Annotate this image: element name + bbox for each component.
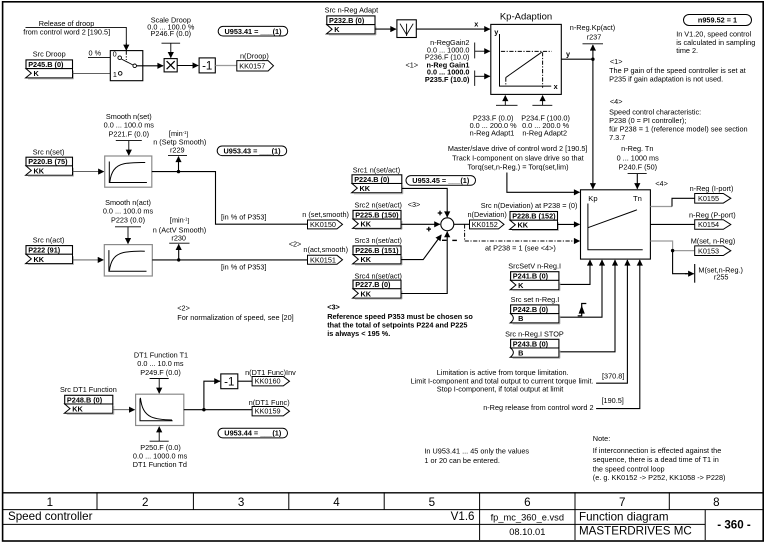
svg-text:- 360 -: - 360 -: [717, 519, 751, 532]
multiplier block: [164, 59, 177, 72]
node: n-Reg. Tn labels: [617, 144, 660, 171]
svg-text:P227.B (0): P227.B (0): [355, 280, 391, 289]
svg-text:[190.5]: [190.5]: [602, 396, 624, 405]
node: scale droop labels: [147, 15, 195, 38]
svg-text:P228.B (152): P228.B (152): [512, 212, 556, 221]
output connector KK0151: [308, 255, 343, 264]
input connector P232 Src n-Reg Adapt: [325, 5, 379, 35]
wire: P249 into DT1 block top: [150, 379, 169, 394]
svg-text:4: 4: [333, 496, 340, 509]
input connector P242 Src set n-Reg.I: [510, 295, 560, 324]
svg-text:P232.B (0): P232.B (0): [329, 16, 365, 25]
svg-text:K0153: K0153: [698, 246, 719, 255]
svg-text:KK: KK: [361, 289, 372, 298]
svg-text:P221.F (0.0): P221.F (0.0): [109, 130, 150, 139]
svg-text:0.0 ... 100.0 ms: 0.0 ... 100.0 ms: [104, 121, 155, 130]
svg-text:Master/slave drive of control: Master/slave drive of control word 2 [19…: [448, 144, 588, 153]
svg-text:<3>: <3>: [327, 303, 340, 312]
wire: master/slave track to controller: [507, 173, 579, 193]
node: r229 measuring point labels: [153, 129, 206, 155]
wire: P250 into DT1 block bottom: [150, 427, 169, 441]
input connector P224 Src1 n(set/act): [352, 166, 403, 194]
svg-text:r230: r230: [171, 234, 186, 243]
node: junction r230: [177, 258, 180, 261]
svg-text:P240.F (50): P240.F (50): [619, 162, 658, 171]
node: dead time note: [593, 434, 726, 482]
edge trigger symbol: [578, 304, 587, 316]
svg-text:P246.F (0.0): P246.F (0.0): [151, 29, 192, 38]
wire: P245 to switch input 1: [73, 72, 118, 74]
wire: Src1 to summer top: [402, 188, 447, 216]
input connector P243 Src n-Reg.I STOP: [505, 329, 564, 358]
svg-text:Src DT1 Function: Src DT1 Function: [60, 385, 117, 394]
svg-text:K0154: K0154: [698, 220, 719, 229]
oval U953.43: [217, 146, 287, 156]
wire: arrow up to r229: [178, 157, 180, 172]
svg-text:Src1 n(set/act): Src1 n(set/act): [353, 166, 400, 175]
svg-text:1 or 20 can be entered.: 1 or 20 can be entered.: [424, 456, 499, 465]
wire: P240 Tn into controller top: [628, 174, 647, 189]
node: sampling time note: [676, 30, 755, 56]
svg-text:time 2.: time 2.: [676, 46, 698, 55]
svg-text:P225.B (150): P225.B (150): [355, 210, 399, 219]
svg-text:0: 0: [113, 50, 117, 59]
svg-text:B: B: [518, 314, 523, 323]
svg-text:Src n(set): Src n(set): [33, 147, 65, 156]
node: junction r229: [177, 170, 180, 173]
svg-text:For normalization of speed, se: For normalization of speed, see [20]: [177, 313, 293, 322]
svg-text:Src3 n(set/act): Src3 n(set/act): [355, 236, 402, 245]
input connector P245 Src Droop: [26, 49, 74, 79]
svg-text:fp_mc_360_e.vsd: fp_mc_360_e.vsd: [491, 513, 564, 523]
svg-text:x: x: [474, 20, 478, 29]
svg-text:-1: -1: [202, 61, 212, 73]
svg-text:Src n-Reg Adapt: Src n-Reg Adapt: [325, 5, 379, 14]
svg-text:is always < 195 %.: is always < 195 %.: [327, 329, 390, 338]
svg-text:In U953.41 ... 45 only the val: In U953.41 ... 45 only the values: [424, 446, 529, 455]
wire: 0% to switch input 0: [88, 57, 110, 59]
svg-text:<2>: <2>: [177, 304, 190, 313]
svg-text:n959.52 = 1: n959.52 = 1: [698, 16, 737, 25]
svg-text:KK0151: KK0151: [310, 255, 336, 264]
svg-text:P220.B (75): P220.B (75): [28, 157, 68, 166]
svg-text:Kp: Kp: [588, 194, 597, 203]
svg-text:n(Droop): n(Droop): [240, 51, 269, 60]
svg-text:If interconnection is effected: If interconnection is effected against t…: [593, 446, 721, 455]
wire: P233 adapt1 into block bottom: [496, 96, 518, 106]
node: U953 entry note: [424, 446, 529, 465]
oval U953.44: [218, 428, 288, 438]
wire: bottom input 2 (P242): [559, 260, 602, 317]
output connector K0153: [695, 246, 731, 256]
svg-text:r229: r229: [170, 145, 185, 154]
svg-text:P245.B (0): P245.B (0): [28, 60, 64, 69]
svg-text:Note:: Note:: [593, 434, 610, 443]
wire: bottom input 4 (torque limitation [370.8]): [596, 260, 627, 383]
DT1 block (derivative decay): [136, 394, 184, 425]
wire: summer output to KK0152: [454, 223, 470, 225]
wire: bottom input 3 (P243): [559, 260, 615, 352]
svg-text:V1.6: V1.6: [451, 510, 475, 523]
svg-text:MASTERDRIVES MC: MASTERDRIVES MC: [579, 525, 692, 538]
node: footnote 4: [609, 97, 748, 142]
svg-text:0.0 ... 10.0 ms: 0.0 ... 10.0 ms: [137, 359, 184, 368]
wire: bottom input 1 (P241): [559, 260, 590, 284]
svg-text:P243.B (0): P243.B (0): [513, 339, 549, 348]
svg-text:Src Droop: Src Droop: [33, 49, 66, 58]
svg-text:Src n-Reg.I STOP: Src n-Reg.I STOP: [505, 329, 564, 338]
input connector P226 Src3 n(set/act): [353, 236, 402, 265]
node: r255 labels: [698, 265, 743, 281]
svg-text:KK0150: KK0150: [310, 220, 336, 229]
smoothing block 1 (PT1 rise): [105, 156, 152, 187]
node: minus sign lower-left: [442, 239, 447, 241]
node: minus sign bottom-right: [452, 239, 457, 241]
node: DT1 Td parameter labels: [133, 443, 188, 469]
svg-text:KK0157: KK0157: [239, 61, 265, 70]
svg-text:n(Deviation): n(Deviation): [468, 210, 507, 219]
svg-text:1: 1: [47, 496, 53, 509]
node: plus sign left: [427, 227, 432, 232]
wire: P220 to smoothing block 1: [73, 171, 104, 173]
svg-text:[370.8]: [370.8]: [602, 372, 624, 381]
title block table: [2, 492, 763, 540]
svg-text:Stop I-component, if total out: Stop I-component, if total output at lim…: [437, 385, 564, 394]
svg-text:KK: KK: [361, 255, 372, 264]
wire: P228 to controller left input: [558, 223, 580, 225]
wire: multiplier to -1: [177, 65, 198, 67]
svg-text:[in % of P353]: [in % of P353]: [221, 212, 266, 221]
node: P233 / P234 labels: [470, 113, 570, 137]
svg-text:3: 3: [238, 496, 244, 509]
svg-text:1: 1: [113, 70, 117, 79]
output connector KK0159: [252, 407, 289, 416]
svg-text:0.0 ... 100.0 ms: 0.0 ... 100.0 ms: [103, 206, 154, 215]
input connector P228 n(Deviation): [510, 212, 559, 231]
wire: to r255 measuring point: [673, 251, 695, 283]
input connector P225 Src2 n(set/act): [353, 201, 402, 230]
svg-text:P226.B (151): P226.B (151): [355, 246, 399, 255]
oval U953.45: [406, 176, 476, 186]
node: DT1 T1 parameter labels: [134, 350, 188, 377]
wire: Src4 to summer bottom: [401, 232, 447, 294]
svg-text:r237: r237: [587, 32, 602, 41]
wire: P221 into smoothing block 1: [116, 141, 142, 156]
svg-text:n-Reg.Kp(act): n-Reg.Kp(act): [570, 23, 615, 32]
svg-text:KK0152: KK0152: [472, 220, 498, 229]
block: -1 inverter: [199, 58, 215, 73]
wire: smoothing1 output to KK0150: [152, 172, 308, 225]
wire: I-port output (gray then black): [650, 198, 694, 206]
svg-text:KK: KK: [360, 184, 371, 193]
svg-text:KK: KK: [34, 255, 45, 264]
wire: -1 to KK0157 (gray): [215, 65, 237, 67]
svg-text:r255: r255: [714, 273, 729, 282]
output connector KK0150: [308, 220, 343, 229]
node: release of droop label: [23, 19, 110, 36]
svg-text:<1>: <1>: [610, 57, 623, 66]
node: junction DT1 out: [202, 408, 205, 411]
svg-text:n(DT1 Func)Inv: n(DT1 Func)Inv: [245, 368, 296, 377]
input connector P227 Src4 n(set/act): [353, 271, 402, 299]
output connector KK0160: [252, 377, 289, 386]
svg-text:<4>: <4>: [610, 97, 623, 106]
svg-text:08.10.01: 08.10.01: [509, 527, 545, 537]
svg-text:Src2 n(set/act): Src2 n(set/act): [355, 201, 402, 210]
svg-text:KK0159: KK0159: [255, 407, 281, 416]
output connector KK0152: [470, 220, 505, 229]
svg-text:SrcSetV n-Reg.I: SrcSetV n-Reg.I: [508, 262, 561, 271]
wire: dash-dot bypass at P238=1: [465, 224, 580, 241]
svg-text:U953.45 = ___(1): U953.45 = ___(1): [412, 176, 470, 185]
svg-text:P222 (91): P222 (91): [28, 246, 61, 255]
svg-text:n(DT1 Func): n(DT1 Func): [249, 398, 290, 407]
oval U953.41: [218, 26, 288, 36]
svg-text:n (set,smooth): n (set,smooth): [302, 210, 349, 219]
svg-text:Track I-component on slave dri: Track I-component on slave drive so that: [452, 153, 584, 162]
block: speed controller PI (Kp Tn): [581, 190, 651, 259]
wire: P234 adapt2 into block bottom: [532, 96, 552, 106]
svg-text:n-Reg. Tn: n-Reg. Tn: [621, 144, 653, 153]
wire: bottom input 5 (n-Reg release [190.5]): [596, 260, 640, 408]
svg-text:KK0160: KK0160: [255, 377, 281, 386]
svg-text:n-Reg (P-port): n-Reg (P-port): [689, 210, 736, 219]
svg-text:KK: KK: [361, 220, 372, 229]
svg-text:U953.41 = ___(1): U953.41 = ___(1): [225, 27, 283, 36]
input connector P248 Src DT1 Function: [60, 385, 117, 414]
node: junction M(set): [671, 249, 674, 252]
svg-text:K: K: [518, 281, 524, 290]
output connector KK0157: [237, 61, 274, 71]
svg-text:P235 if gain adaptation is not: P235 if gain adaptation is not used.: [609, 74, 723, 83]
node: smooth n(set) parameter labels: [104, 112, 155, 139]
svg-text:Src n(act): Src n(act): [33, 235, 65, 244]
wire: switch to multiplier: [137, 65, 164, 67]
wire: P232 to absolute value block: [375, 28, 396, 30]
svg-text:7: 7: [619, 496, 625, 509]
svg-text:KK: KK: [72, 405, 83, 414]
svg-text:2: 2: [142, 496, 148, 509]
svg-text:-1: -1: [224, 376, 234, 388]
svg-text:P248.B (0): P248.B (0): [67, 395, 103, 404]
svg-text:(e. g. KK0152 -> P252, KK1058: (e. g. KK0152 -> P252, KK1058 -> P228): [593, 473, 726, 482]
svg-text:Speed controller: Speed controller: [8, 510, 93, 523]
wire: arrow up to r230: [178, 244, 180, 260]
wire: -1 to KK0160: [238, 380, 252, 382]
svg-text:[min-1]: [min-1]: [170, 215, 190, 224]
svg-text:P241.B (0): P241.B (0): [513, 272, 549, 281]
node: r237 measuring point: [570, 23, 615, 44]
svg-text:sequence, there is a dead time: sequence, there is a dead time of T1 in: [593, 455, 719, 464]
svg-text:K0155: K0155: [698, 194, 719, 203]
svg-text:8: 8: [713, 496, 719, 509]
svg-text:6: 6: [524, 496, 530, 509]
svg-text:<3>: <3>: [408, 200, 421, 209]
smoothing block 2 (PT1 rise): [104, 245, 152, 276]
svg-text:Torq(set,n-Reg.) = Torq(set,li: Torq(set,n-Reg.) = Torq(set,lim): [467, 162, 568, 171]
svg-text:from control word 2 [190.5]: from control word 2 [190.5]: [23, 27, 110, 36]
svg-text:P242.B (0): P242.B (0): [513, 305, 549, 314]
wire: adaption y output to controller Kp input: [561, 59, 593, 188]
svg-text:0 %: 0 %: [89, 49, 102, 58]
svg-text:M(set, n-Reg): M(set, n-Reg): [691, 236, 736, 245]
svg-text:n-Reg release from control wor: n-Reg release from control word 2: [483, 403, 593, 412]
switch block (droop release): [110, 50, 143, 81]
input connector P220 Src n(set): [26, 147, 74, 176]
svg-text:n(act,smooth): n(act,smooth): [303, 245, 348, 254]
svg-text:<2>: <2>: [289, 240, 302, 249]
svg-text:Src set n-Reg.I: Src set n-Reg.I: [511, 295, 560, 304]
wire: release of droop to switch control input: [26, 27, 127, 50]
wire: smoothing2 output to KK0151: [152, 259, 307, 261]
svg-text:KK: KK: [34, 166, 45, 175]
svg-text:Src4 n(set/act): Src4 n(set/act): [355, 271, 402, 280]
output connector K0155: [695, 194, 731, 204]
svg-text:0 ... 1000 ms: 0 ... 1000 ms: [617, 153, 660, 162]
svg-text:K: K: [34, 69, 40, 78]
svg-text:n-Reg (I-port): n-Reg (I-port): [690, 184, 734, 193]
input connector P241 SrcSetV n-Reg.I: [508, 262, 561, 291]
svg-text:7.3.7: 7.3.7: [609, 133, 625, 142]
svg-text:P224.B (0): P224.B (0): [354, 175, 390, 184]
wire: P223 into smoothing block 2: [115, 227, 141, 244]
wire: junction up to -1: [204, 381, 220, 410]
wire: Src3 to summer lower-left (diagonal): [401, 235, 441, 260]
svg-text:n-Reg Adapt1: n-Reg Adapt1: [470, 128, 515, 137]
svg-text:Kp-Adaption: Kp-Adaption: [500, 12, 552, 23]
node: junction at r237: [591, 58, 594, 61]
svg-text:5: 5: [429, 496, 435, 509]
svg-text:U953.44 = ___(1): U953.44 = ___(1): [224, 429, 282, 438]
node: footnote 1: [609, 57, 746, 83]
output connector K0154: [695, 220, 731, 230]
wire: P-port output: [650, 223, 694, 225]
svg-text:at P238 = 1 (see <4>): at P238 = 1 (see <4>): [485, 244, 556, 253]
svg-text:P249.F (0.0): P249.F (0.0): [140, 368, 181, 377]
svg-text:[in % of P353]: [in % of P353]: [221, 263, 266, 272]
input connector P222 Src n(act): [26, 235, 74, 264]
svg-text:P223 (0.0): P223 (0.0): [111, 215, 145, 224]
node: plus sign top: [438, 211, 443, 216]
svg-text:n-Reg Adapt2: n-Reg Adapt2: [522, 128, 567, 137]
node: reference speed footnote (bold): [327, 312, 473, 338]
wire: Src2 to summer left: [401, 223, 440, 225]
svg-text:Src n(Deviation) at P238 = (0): Src n(Deviation) at P238 = (0): [481, 201, 578, 210]
wire: DT1 output to KK0159: [184, 409, 252, 411]
wire: gain2 into adaption block: [475, 43, 490, 59]
svg-text:U953.43 = ___(1): U953.43 = ___(1): [224, 146, 282, 155]
node: master/slave note: [448, 144, 588, 171]
svg-text:für P238 = 1 (reference model): für P238 = 1 (reference model) see secti…: [609, 125, 748, 134]
svg-text:Function diagram: Function diagram: [579, 510, 669, 523]
node: torque limitation notes: [411, 368, 594, 394]
oval n959.52: [684, 15, 752, 26]
wire: arrow up to r237: [592, 45, 594, 59]
svg-text:KK: KK: [518, 221, 529, 230]
wire: P222 to smoothing block 2: [73, 259, 104, 261]
summing junction circle: [441, 218, 454, 231]
svg-text:<4>: <4>: [655, 179, 668, 188]
wire: abs to Kp-Adaption x input: [416, 28, 490, 30]
svg-text:P235.F (10.0): P235.F (10.0): [425, 75, 470, 84]
svg-text:Tn: Tn: [633, 194, 642, 203]
svg-text:<1>: <1>: [406, 60, 419, 69]
block: absolute value |x|: [397, 20, 416, 38]
svg-text:B: B: [518, 349, 523, 358]
block: Kp-Adaption characteristic: [491, 24, 562, 94]
wire: M(set) output gray with junction: [650, 241, 694, 251]
block: -1 inverter (DT1): [221, 374, 238, 389]
svg-text:x: x: [554, 82, 558, 91]
node: n-Reg gain parameter labels: [406, 38, 471, 84]
svg-text:DT1 Function Td: DT1 Function Td: [133, 460, 187, 469]
wire: gain1 into adaption block: [475, 71, 490, 86]
wire: P246 parameter into multiplier: [162, 43, 181, 57]
wire: P248 to DT1 block: [113, 409, 135, 411]
node: smooth n(act) parameter labels: [103, 198, 154, 225]
svg-text:K: K: [334, 25, 340, 34]
node: r230 measuring point labels: [153, 215, 207, 243]
